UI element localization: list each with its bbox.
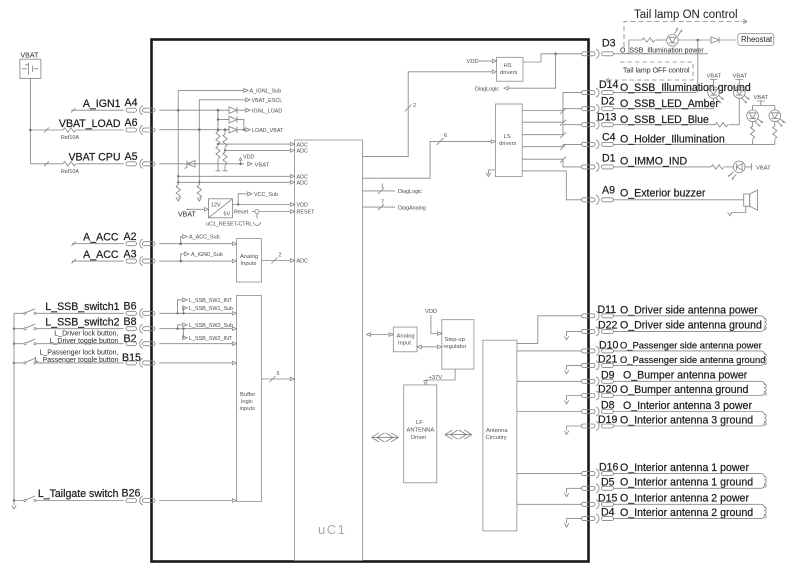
dashed OFF control box: [612, 62, 693, 80]
svg-text:O_Interior antenna 3 power: O_Interior antenna 3 power: [623, 400, 752, 412]
svg-text:D9: D9: [601, 369, 615, 381]
svg-text:D3: D3: [602, 38, 616, 50]
svg-text:VDD: VDD: [425, 309, 437, 315]
svg-text:regulator: regulator: [444, 344, 467, 350]
diode D-load on A6 line: [229, 126, 245, 133]
wire D3 external: [614, 53, 709, 55]
wire tail to D14 ground: [697, 40, 699, 93]
wire uC1 to HS (bus 2): [363, 72, 493, 157]
svg-text:A4: A4: [125, 97, 138, 109]
coil interior antenna 1: [765, 476, 767, 488]
connector pin D4: [582, 514, 614, 523]
connector pin D22: [582, 327, 614, 336]
LED immo: [729, 161, 745, 180]
svg-text:O_Interior antenna 2 ground: O_Interior antenna 2 ground: [620, 507, 753, 519]
svg-text:DiagAnalog: DiagAnalog: [398, 205, 426, 211]
svg-text:L_SSB_SW2_Sub: L_SSB_SW2_Sub: [189, 323, 233, 329]
svg-text:O_Holder_Illumination: O_Holder_Illumination: [620, 134, 725, 146]
node D3 junction: [554, 53, 557, 56]
wire D11 power feed: [517, 316, 582, 344]
divider column R2a/R2b: [224, 128, 227, 131]
bus arrows right of LF driver: [445, 430, 472, 439]
svg-text:D4: D4: [601, 507, 615, 519]
connector pin D16: [582, 469, 614, 478]
svg-text:D22: D22: [598, 319, 618, 331]
switch SW5 and wire B26: [14, 496, 124, 501]
wire branch to diode row2: [218, 110, 229, 119]
net label VBAT_ESCL: [246, 98, 250, 102]
wire uC1 to analog input: [367, 334, 390, 336]
wire C4 external: [614, 143, 775, 145]
connector pin D8: [582, 407, 614, 416]
node A6-tap: [198, 128, 201, 131]
svg-text:2: 2: [279, 253, 282, 259]
svg-text:A_ACC: A_ACC: [83, 249, 119, 261]
wire D8 power feed: [517, 411, 582, 413]
wire VDD out: [233, 204, 295, 206]
svg-text:Rheostat: Rheostat: [741, 35, 773, 44]
net label IGNL_LOAD: [246, 108, 250, 112]
svg-text:O_IMMO_IND: O_IMMO_IND: [620, 156, 687, 168]
connector pin D11: [582, 311, 614, 320]
svg-text:Buffer: Buffer: [240, 392, 255, 398]
wire B6 internal: [159, 312, 232, 314]
wire tap VBAT_ESCL: [199, 100, 245, 130]
wire A9 external: [614, 199, 744, 201]
LED holder 1: [747, 110, 764, 126]
switch SW4 and wire B15: [14, 358, 124, 363]
wire LS out5 to D1: [522, 157, 581, 167]
svg-text:Driver: Driver: [411, 435, 427, 441]
node A4-tap1: [177, 109, 180, 112]
svg-text:VBAT: VBAT: [707, 74, 722, 80]
wire A5 feed with slash: [30, 161, 63, 166]
wire D8 antenna loop top: [614, 412, 765, 416]
connector pin D3: [582, 49, 614, 58]
wire blue LED to D13: [738, 98, 740, 124]
svg-text:A_IGN0_Sub: A_IGN0_Sub: [191, 252, 223, 258]
node diode-or join: [243, 129, 245, 131]
svg-text:A_IGN1: A_IGN1: [83, 98, 121, 110]
svg-text:LOAD_VBAT: LOAD_VBAT: [252, 128, 284, 134]
svg-text:L_Passenger lock button,: L_Passenger lock button,: [40, 350, 119, 357]
connector pin D13: [582, 120, 614, 129]
svg-text:L_Driver lock button,: L_Driver lock button,: [54, 331, 118, 338]
connector pin D5: [582, 484, 614, 493]
wire ADC2: [225, 149, 294, 151]
svg-text:O_Interior antenna 3 ground: O_Interior antenna 3 ground: [620, 414, 753, 426]
svg-text:ADC: ADC: [297, 181, 308, 187]
connector pin A9: [582, 195, 614, 204]
svg-text:O_SSB_LED_Blue: O_SSB_LED_Blue: [620, 114, 709, 126]
wire A6 internal: [159, 129, 229, 131]
tap L_SSB_SW2_Sub: [178, 325, 183, 329]
wire D13 external with resistor: [614, 124, 716, 126]
Antenna Circuitry box: [483, 340, 517, 531]
connector pin D21: [582, 361, 614, 370]
svg-text:C4: C4: [602, 132, 616, 144]
wire D15 antenna loop top: [614, 504, 765, 508]
node B8 taps: [176, 328, 178, 330]
wire D19 antenna loop bottom: [614, 422, 765, 426]
wire D5 antenna loop bottom: [614, 484, 765, 488]
svg-text:D11: D11: [598, 304, 617, 316]
svg-text:D8: D8: [601, 400, 615, 412]
diode D-mid: [229, 116, 244, 129]
svg-text:uC1_RESET-CTRL: uC1_RESET-CTRL: [206, 222, 252, 228]
zener DZ1 on A5: [185, 161, 196, 169]
wire LS out6 to A9: [522, 171, 581, 200]
svg-text:5: 5: [277, 371, 280, 377]
svg-text:Antenna: Antenna: [486, 428, 508, 434]
svg-text:RESET: RESET: [297, 210, 316, 216]
wire VDD to HS: [478, 60, 493, 62]
wire tap A_IGNL_Sub: [178, 90, 243, 110]
svg-text:Inputs: Inputs: [241, 261, 257, 267]
ground hook D4: [567, 519, 582, 524]
svg-text:O_Driver side antenna ground: O_Driver side antenna ground: [620, 320, 762, 332]
wire VBAT_LOAD: [80, 129, 124, 131]
ground hook LS: [488, 170, 495, 174]
svg-text:B26: B26: [122, 488, 141, 500]
wire B8 internal: [159, 328, 232, 330]
wire A4 internal: [159, 109, 229, 111]
LS drivers box: [495, 104, 522, 177]
svg-text:Analog: Analog: [240, 254, 258, 260]
ground hook D19: [567, 426, 582, 431]
svg-text:ADC: ADC: [297, 149, 308, 155]
svg-text:B6: B6: [124, 301, 137, 313]
wire +37V: [426, 369, 456, 381]
svg-text:VBAT CPU: VBAT CPU: [68, 152, 120, 164]
node VCC tap: [237, 203, 239, 205]
wire LS out4 to C4: [522, 144, 581, 150]
svg-text:D16: D16: [599, 462, 619, 474]
svg-text:O_Interior antenna 1 power: O_Interior antenna 1 power: [620, 462, 749, 474]
svg-text:A_IGNL_Sub: A_IGNL_Sub: [250, 89, 282, 95]
switch SW1 and wire B6: [14, 309, 124, 314]
net label LOAD_VBAT: [246, 128, 250, 132]
ground buzzer: [731, 206, 745, 212]
svg-text:VBAT: VBAT: [178, 212, 196, 219]
wire D2 external: [614, 108, 714, 110]
dashed arrow OFF: [606, 78, 612, 82]
svg-text:VBAT: VBAT: [733, 74, 748, 80]
tap A_ACC_Sub: [181, 237, 182, 244]
svg-text:D5: D5: [601, 476, 615, 488]
node R3-adc3: [177, 175, 179, 177]
wire D15 power feed: [517, 503, 582, 505]
svg-text:VBAT_LOAD: VBAT_LOAD: [59, 118, 121, 130]
wire VBAT_CPU: [80, 163, 124, 165]
wire ADC4: [178, 181, 294, 183]
net label VBAT (A5): [248, 162, 252, 166]
connector pin B6: [126, 309, 155, 318]
wire D11 antenna loop top: [614, 316, 765, 320]
Buffer logic inputs box: [237, 296, 262, 502]
svg-text:O_Driver side antenna power: O_Driver side antenna power: [620, 304, 758, 316]
wire D1 external with resistor: [614, 166, 712, 168]
svg-text:A2: A2: [124, 231, 137, 243]
node B6 taps: [176, 312, 178, 314]
wire D9 power feed: [517, 380, 582, 382]
ground hook D21: [567, 365, 582, 370]
wire uC1 to LS (bus 6): [363, 138, 492, 178]
svg-text:D21: D21: [598, 353, 618, 365]
svg-text:logic: logic: [241, 399, 253, 405]
svg-text:IGNL_LOAD: IGNL_LOAD: [252, 108, 282, 114]
svg-text:Ref10A: Ref10A: [61, 169, 79, 175]
wire A3 internal: [159, 260, 232, 262]
fuse F1 Ref10A: [63, 128, 76, 132]
tap A_IGN0_Sub: [181, 254, 184, 261]
wire D9 antenna loop top: [614, 381, 765, 385]
wire A5 internal: [159, 163, 244, 165]
node VBAT-A6 junction: [29, 129, 32, 132]
wire ADC1: [218, 143, 295, 145]
wire DiagLogic sense: [508, 54, 556, 88]
pulldown column R3: [177, 110, 179, 185]
Analog Inputs box: [237, 239, 262, 283]
svg-text:VBAT_ESCL: VBAT_ESCL: [252, 98, 283, 104]
node rail B15: [13, 362, 15, 364]
LED holder 2: [769, 110, 786, 126]
dashed arrow: [741, 19, 747, 24]
bus arrows left of LF driver: [372, 433, 399, 442]
Analog Input box: [393, 327, 417, 352]
svg-text:VBAT: VBAT: [756, 165, 771, 171]
ground arrow rail: [12, 505, 16, 509]
svg-text:12V: 12V: [211, 203, 221, 209]
svg-text:A_ACC_Sub: A_ACC_Sub: [189, 235, 220, 241]
svg-text:A_ACC: A_ACC: [83, 232, 119, 244]
node A2 tap: [179, 242, 182, 245]
connector pin A6: [126, 125, 155, 134]
net label A_IGNL_Sub: [244, 89, 248, 93]
uC1 pin DiagLogic stub: [363, 188, 396, 194]
svg-text:D2: D2: [601, 96, 615, 108]
svg-text:L_SSB_switch1: L_SSB_switch1: [45, 301, 119, 313]
svg-text:DiagLogic: DiagLogic: [475, 86, 499, 92]
svg-text:D15: D15: [598, 492, 618, 504]
connector pin A2: [126, 239, 155, 248]
svg-text:drivers: drivers: [499, 141, 516, 147]
svg-text:L_SSB_SW2_INT: L_SSB_SW2_INT: [189, 336, 233, 342]
svg-text:DiagLogic: DiagLogic: [398, 189, 422, 195]
connector pin B2: [126, 339, 155, 348]
connector pin D15: [582, 500, 614, 509]
svg-text:ANTENNA: ANTENNA: [407, 428, 435, 434]
connector pin D14: [582, 88, 614, 97]
diode D-tail: [698, 37, 736, 43]
svg-text:drivers: drivers: [500, 70, 517, 76]
svg-text:L_SSB_SW1_INT: L_SSB_SW1_INT: [189, 298, 233, 304]
wire B2 internal: [159, 343, 232, 345]
connector pin D9: [582, 377, 614, 386]
dashed ON control boundary: [624, 22, 740, 48]
svg-text:D1: D1: [602, 153, 616, 165]
wire A2 internal: [159, 243, 232, 245]
svg-text:Reset: Reset: [234, 210, 249, 216]
wire D16 power feed: [517, 473, 582, 475]
switch ground rail: [13, 313, 15, 505]
svg-text:Input: Input: [398, 341, 411, 347]
wire amber LED to D2: [713, 98, 715, 108]
connector pin D1: [582, 162, 614, 171]
svg-text:D14: D14: [599, 79, 619, 91]
svg-text:A6: A6: [125, 117, 138, 129]
coil interior antenna 2: [765, 507, 767, 519]
wire D10 antenna loop top: [614, 351, 765, 355]
Step-up regulator box: [442, 320, 474, 369]
connector pin D19: [582, 421, 614, 430]
wire D4 antenna loop bottom: [614, 514, 765, 518]
node rail B2: [13, 343, 15, 345]
tap L_SSB_SW1_Sub: [183, 308, 184, 314]
node tail junction: [697, 39, 700, 42]
svg-text:VBAT: VBAT: [754, 95, 769, 101]
svg-text:A9: A9: [602, 185, 615, 197]
wire D16 antenna loop top: [614, 474, 765, 478]
svg-text:L_SSB_SW1_Sub: L_SSB_SW1_Sub: [189, 306, 233, 312]
svg-text:O_Interior antenna 2 power: O_Interior antenna 2 power: [620, 493, 749, 505]
resistor R-tail: [642, 38, 655, 42]
reset cap symbol: [254, 214, 261, 226]
regulator 12V/5V box: [209, 199, 233, 218]
wire A_ACC A2: [72, 242, 124, 247]
svg-text:O_SSB_Illumination ground: O_SSB_Illumination ground: [620, 82, 751, 94]
svg-text:ADC: ADC: [297, 142, 308, 148]
svg-text:B2: B2: [124, 333, 137, 345]
connector pin D10: [582, 346, 614, 355]
Rheostat box: [738, 34, 774, 46]
node A3 tap: [179, 260, 182, 263]
svg-text:B15: B15: [122, 352, 141, 364]
wire D21 antenna loop bottom: [614, 361, 765, 365]
svg-text:D13: D13: [597, 112, 617, 124]
wire D22 antenna loop bottom: [614, 327, 765, 331]
ground hook D22: [567, 331, 582, 336]
battery VBAT box: [20, 59, 41, 78]
wire D14 external: [614, 92, 697, 94]
svg-text:7: 7: [381, 200, 384, 206]
svg-text:VBAT: VBAT: [255, 162, 270, 168]
svg-text:5V: 5V: [224, 212, 231, 218]
svg-text:LS: LS: [504, 134, 511, 140]
divider column R1a/R1b: [217, 110, 219, 131]
buzzer speaker: [744, 190, 758, 210]
fuse F2 Ref10A: [63, 162, 76, 166]
connector pin B15: [126, 358, 155, 367]
node R3-adc4: [177, 181, 179, 183]
svg-text:A5: A5: [125, 151, 138, 163]
switch SW3 and wire B2: [14, 339, 124, 344]
wire B26 internal: [159, 500, 232, 502]
uC1 pin DiagAnalog stub: [363, 204, 396, 210]
tap L_SSB_SW1_INT: [178, 300, 183, 314]
switch SW2 and wire B8: [14, 324, 124, 329]
svg-text:Analog: Analog: [397, 334, 415, 340]
connector pin D2: [582, 104, 614, 113]
net label VCC_Sub: [248, 192, 252, 196]
svg-text:Tail lamp OFF control: Tail lamp OFF control: [623, 68, 690, 75]
wire tail lamp tap: [629, 40, 642, 54]
wire B15 internal: [159, 362, 232, 364]
microcontroller uC1 box: [295, 140, 363, 561]
svg-text:D10: D10: [599, 339, 619, 351]
svg-text:L_SSB_switch2: L_SSB_switch2: [45, 317, 119, 329]
coil bumper antenna: [765, 384, 767, 396]
wire ADC3: [178, 175, 294, 177]
resistor holder 1: [752, 122, 754, 126]
svg-text:O_SSB_Illumination power: O_SSB_Illumination power: [620, 47, 704, 54]
node R4-adc4: [198, 181, 200, 183]
svg-text:O_Passenger side antenna groun: O_Passenger side antenna ground: [620, 354, 765, 365]
connector pin C4: [582, 140, 614, 149]
wire VBAT rail down: [29, 78, 31, 163]
svg-text:O_Passenger side antenna power: O_Passenger side antenna power: [620, 339, 762, 350]
svg-text:Circuitry: Circuitry: [486, 435, 507, 441]
svg-text:6: 6: [444, 133, 447, 139]
wire HS output to D3: [523, 54, 582, 62]
svg-text:Ref10A: Ref10A: [61, 135, 79, 141]
svg-text:Tail lamp ON control: Tail lamp ON control: [634, 9, 738, 21]
svg-text:VDD: VDD: [467, 59, 479, 65]
svg-text:O_Bumper antenna ground: O_Bumper antenna ground: [620, 384, 749, 396]
VDD tap: [240, 160, 242, 164]
tap L_SSB_SW2_INT: [183, 329, 184, 338]
svg-text:L_Tailgate switch: L_Tailgate switch: [38, 488, 119, 500]
pulldown column R4: [198, 130, 200, 185]
connector pin B8: [126, 324, 155, 333]
svg-text:Step-up: Step-up: [445, 337, 465, 343]
wire A6 feed with slash: [30, 128, 63, 133]
ground hook D5: [567, 488, 582, 493]
node A4-tap2: [217, 109, 220, 112]
connector pin B26: [126, 496, 155, 505]
LED tail: [667, 27, 683, 46]
svg-text:O_Bumper antenna power: O_Bumper antenna power: [623, 370, 748, 382]
svg-text:VBAT: VBAT: [21, 53, 39, 60]
connector pin A3: [126, 257, 155, 266]
svg-text:D19: D19: [598, 414, 618, 426]
svg-text:2: 2: [413, 103, 416, 109]
connector pin D20: [582, 391, 614, 400]
connector pin A5: [126, 159, 155, 168]
wire VCC_Sub tap: [238, 194, 247, 205]
svg-text:D20: D20: [598, 384, 618, 396]
svg-text:+37V: +37V: [429, 375, 443, 381]
svg-text:ADC: ADC: [297, 259, 308, 265]
wire analog-stepup: [421, 346, 438, 348]
svg-text:VDD: VDD: [243, 155, 254, 161]
node rail B8: [13, 328, 15, 330]
ground hook D20: [567, 396, 582, 401]
svg-text:inputs: inputs: [240, 406, 256, 412]
wire D10 power feed: [517, 350, 582, 352]
wire buffer to uC1 with bus slash 5: [262, 376, 295, 382]
diode D-ign on A4 line: [229, 107, 245, 114]
svg-text:uC1: uC1: [318, 522, 346, 537]
svg-text:B8: B8: [124, 316, 137, 328]
svg-text:VCC_Sub: VCC_Sub: [254, 192, 278, 198]
coil interior antenna 3: [765, 414, 767, 426]
module outer box: [152, 40, 589, 562]
wire D20 antenna loop bottom: [614, 391, 765, 395]
connector pin A4: [126, 106, 155, 115]
LF ANTENNA Driver box: [404, 385, 437, 483]
coil driver antenna: [765, 318, 767, 330]
